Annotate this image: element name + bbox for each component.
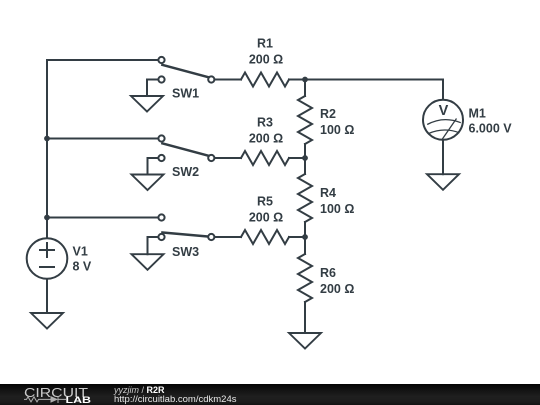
voltage source V1 circle bbox=[27, 238, 68, 279]
svg-text:R2: R2 bbox=[320, 107, 336, 121]
footer bar bbox=[0, 384, 540, 405]
switch SW1 terminal circles bbox=[158, 57, 164, 63]
wire: node B down to R4 bbox=[304, 158, 306, 174]
resistor R2 zigzag bbox=[298, 96, 312, 144]
switch SW3 lever bbox=[161, 232, 209, 236]
wire: SW3 pole to R5 bbox=[214, 236, 241, 238]
svg-text:100 Ω: 100 Ω bbox=[320, 202, 354, 216]
wire: R1 to node A and across to M1 bbox=[289, 80, 443, 100]
ground under SW1 bbox=[131, 96, 163, 112]
V1 minus sign bbox=[39, 266, 55, 268]
svg-text:R1: R1 bbox=[257, 36, 273, 50]
svg-text:200 Ω: 200 Ω bbox=[320, 282, 354, 296]
junction node A bbox=[302, 77, 308, 83]
wire: SW2 lower throw to ground stub bbox=[148, 158, 159, 175]
wire: SW1 pole to R1 bbox=[214, 79, 241, 81]
M1 needle bbox=[442, 119, 456, 140]
ground under R6 bbox=[289, 333, 321, 349]
svg-text:SW2: SW2 bbox=[172, 165, 199, 179]
M1 meter face arcs bbox=[427, 120, 461, 134]
footer line 2: url bbox=[114, 394, 237, 405]
svg-text:200 Ω: 200 Ω bbox=[249, 131, 283, 145]
svg-text:R4: R4 bbox=[320, 186, 336, 200]
voltmeter M1 circle bbox=[423, 100, 463, 140]
wire: R2 to node B bbox=[304, 144, 306, 158]
switch SW2 terminal circles bbox=[158, 135, 164, 141]
switch SW2 lever bbox=[161, 143, 209, 156]
wire: R4 to node C bbox=[304, 222, 306, 237]
wire: left vertical bus from top rail to V1 top bbox=[46, 60, 48, 238]
svg-text:R6: R6 bbox=[320, 266, 336, 280]
svg-text:R5: R5 bbox=[257, 195, 273, 209]
wire: SW1 lower throw to ground stub bbox=[147, 80, 158, 97]
resistor R3 zigzag bbox=[241, 151, 289, 165]
junction dot on bus at lower rail bbox=[44, 215, 50, 221]
wire: lower rail to SW3 throw bbox=[47, 217, 158, 219]
resistor R4 zigzag bbox=[298, 174, 312, 222]
junction node B bbox=[302, 155, 308, 161]
footer line 1: yyzjim / R2R bbox=[114, 385, 165, 395]
svg-text:200 Ω: 200 Ω bbox=[249, 52, 283, 66]
wire: node C down to R6 bbox=[304, 237, 306, 254]
wire: top rail to SW1 throw bbox=[47, 59, 158, 61]
ground under SW2 bbox=[132, 175, 164, 191]
wire: middle rail to SW2 throw bbox=[47, 138, 158, 140]
junction dot on bus at middle rail bbox=[44, 136, 50, 142]
ground under M1 bbox=[427, 174, 459, 190]
wire: R3 to node B bbox=[289, 157, 305, 159]
resistor R6 zigzag bbox=[298, 254, 312, 302]
wire: R6 to ground bbox=[304, 302, 306, 333]
svg-text:8 V: 8 V bbox=[73, 260, 92, 274]
ground under V1 bbox=[31, 313, 63, 329]
svg-text:SW1: SW1 bbox=[172, 87, 199, 101]
wire: node A down to R2 bbox=[304, 80, 306, 97]
svg-text:R3: R3 bbox=[257, 115, 273, 129]
svg-text:V1: V1 bbox=[73, 245, 88, 259]
wire: V1 bottom to ground bbox=[46, 279, 48, 313]
wire: SW3 lower throw to ground stub bbox=[148, 237, 159, 254]
svg-text:100 Ω: 100 Ω bbox=[320, 123, 354, 137]
svg-text:200 Ω: 200 Ω bbox=[249, 211, 283, 225]
V1 plus sign bbox=[39, 242, 55, 258]
wire: SW2 pole to R3 bbox=[214, 157, 241, 159]
svg-text:SW3: SW3 bbox=[172, 245, 199, 259]
switch SW1 lever bbox=[161, 65, 209, 78]
wire: R5 to node C bbox=[289, 236, 305, 238]
junction node C bbox=[302, 234, 308, 240]
resistor R1 zigzag bbox=[241, 73, 289, 87]
ground under SW3 bbox=[132, 254, 164, 270]
svg-text:6.000 V: 6.000 V bbox=[469, 122, 513, 136]
switch SW3 terminal circles bbox=[158, 214, 164, 220]
wire: M1 bottom to ground bbox=[442, 140, 444, 174]
resistor R5 zigzag bbox=[241, 230, 289, 244]
svg-text:M1: M1 bbox=[469, 106, 486, 120]
svg-text:V: V bbox=[439, 103, 449, 119]
CircuitLab logo bbox=[0, 384, 110, 405]
svg-text:LAB: LAB bbox=[66, 395, 92, 405]
